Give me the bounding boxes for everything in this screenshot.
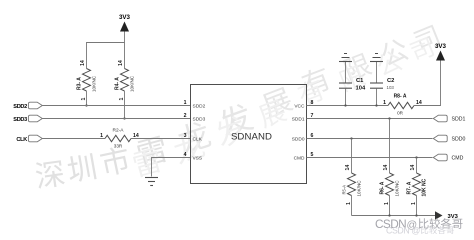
wire CMD net xyxy=(307,157,433,159)
svg-text:1: 1 xyxy=(119,98,125,101)
resistor R2-A 33R (CLK series) xyxy=(100,128,139,149)
svg-text:CMD: CMD xyxy=(294,155,305,161)
svg-text:SDD3: SDD3 xyxy=(13,117,27,123)
ground (VSS) xyxy=(145,178,158,186)
svg-text:R3- A: R3- A xyxy=(77,77,83,90)
svg-text:VCC: VCC xyxy=(294,103,305,109)
svg-text:7: 7 xyxy=(311,113,314,119)
wire 3V3 rail (bottom right) xyxy=(352,215,436,217)
wire SDD0 net xyxy=(307,138,433,140)
port SDD3 (left) xyxy=(13,115,42,123)
svg-text:1: 1 xyxy=(100,133,103,139)
svg-text:103: 103 xyxy=(387,85,395,90)
svg-text:1: 1 xyxy=(184,100,187,106)
svg-text:10K/NC: 10K/NC xyxy=(357,180,362,197)
svg-text:5: 5 xyxy=(311,152,314,158)
svg-text:R7- A: R7- A xyxy=(407,181,413,194)
wire 0R to 3V3 (top right) xyxy=(414,61,441,106)
svg-text:3: 3 xyxy=(184,133,187,139)
svg-text:8: 8 xyxy=(311,100,314,106)
svg-text:VSS: VSS xyxy=(193,155,203,161)
svg-text:33R: 33R xyxy=(114,144,123,149)
svg-text:14: 14 xyxy=(410,165,416,171)
resistor R7- A 10K NC pull-up xyxy=(407,158,428,216)
wire SDD2 net xyxy=(43,105,191,107)
watermark CSDN handle xyxy=(375,217,463,236)
svg-text:SDD0: SDD0 xyxy=(292,136,305,142)
power 3V3 (top right) xyxy=(435,43,447,61)
svg-text:R5-A: R5-A xyxy=(342,185,347,195)
svg-text:R8- A: R8- A xyxy=(394,94,407,100)
svg-text:0R: 0R xyxy=(397,111,404,116)
svg-text:R4- A: R4- A xyxy=(115,77,121,90)
svg-text:R2-A: R2-A xyxy=(113,128,125,134)
port CMD (right) xyxy=(433,154,463,161)
svg-text:C1: C1 xyxy=(356,78,364,84)
wire VSS xyxy=(152,158,191,177)
svg-text:SDD3: SDD3 xyxy=(193,116,206,122)
junction R6 / 3V3 rail xyxy=(388,214,390,216)
ground (C2 top, inverted) xyxy=(370,54,383,62)
svg-text:SDD0: SDD0 xyxy=(452,137,466,143)
svg-text:CLK: CLK xyxy=(193,136,203,142)
svg-text:1: 1 xyxy=(81,98,87,101)
watermark company name diagonal xyxy=(34,25,440,190)
junction R4 / SDD3 net xyxy=(123,117,125,119)
svg-text:C2: C2 xyxy=(387,78,394,84)
ground (C1 top, inverted) xyxy=(339,54,352,62)
power 3V3 (bottom right) xyxy=(435,211,459,220)
svg-text:CLK: CLK xyxy=(16,137,27,143)
resistor R4-A 10K/NC (SDD3 pull-up) xyxy=(115,60,135,118)
port SDD0 (right) xyxy=(433,135,465,142)
svg-text:1: 1 xyxy=(384,202,390,205)
resistor R6- A 10K/NC pull-up xyxy=(380,119,400,216)
svg-text:SDD1: SDD1 xyxy=(292,116,305,122)
wire VCC net (pin 8 to R8) xyxy=(307,105,389,107)
svg-text:1: 1 xyxy=(346,202,352,205)
svg-text:10K/NC: 10K/NC xyxy=(92,75,97,92)
junction R3 / SDD2 net xyxy=(85,104,87,106)
svg-text:SDD2: SDD2 xyxy=(193,103,206,109)
svg-text:10K NC: 10K NC xyxy=(422,178,428,196)
svg-text:SDD1: SDD1 xyxy=(452,117,466,123)
svg-text:6: 6 xyxy=(311,133,314,139)
svg-text:104: 104 xyxy=(356,86,366,92)
svg-text:14: 14 xyxy=(118,60,124,66)
junction CMD / R7 xyxy=(415,156,417,158)
capacitor C2 103 xyxy=(370,62,394,106)
junction R7 / 3V3 rail xyxy=(415,214,417,216)
power 3V3 (top left) xyxy=(119,14,131,43)
svg-text:3V3: 3V3 xyxy=(435,43,447,50)
svg-text:14: 14 xyxy=(383,165,389,171)
junction C1 / VCC xyxy=(344,104,346,106)
svg-text:10K/NC: 10K/NC xyxy=(130,75,135,92)
resistor R5-A 10K/NC pull-up xyxy=(342,139,362,216)
wire SDD3 net xyxy=(43,118,191,120)
wire 3V3 to pull-up resistors R3/R4 xyxy=(87,43,125,69)
svg-text:1: 1 xyxy=(383,100,386,106)
svg-text:14: 14 xyxy=(80,60,86,66)
svg-text:SDD2: SDD2 xyxy=(13,104,27,110)
port SDD2 (left) xyxy=(13,102,42,110)
wire CLK to R2 xyxy=(43,138,106,140)
svg-text:1: 1 xyxy=(411,202,417,205)
wire SDD1 net xyxy=(307,118,433,120)
junction SDD1 / R6 xyxy=(388,117,390,119)
svg-text:CSDN @: CSDN @ xyxy=(386,226,420,236)
svg-text:R6- A: R6- A xyxy=(380,181,386,194)
port SDD1 (right) xyxy=(433,115,465,122)
capacitor C1 104 xyxy=(339,62,366,106)
junction SDD0 / R5 xyxy=(350,137,352,139)
svg-text:3V3: 3V3 xyxy=(119,14,131,21)
port CLK (left) xyxy=(16,135,42,143)
svg-text:14: 14 xyxy=(345,165,351,171)
resistor R3-A 10K/NC (SDD2 pull-up) xyxy=(77,60,97,105)
junction C2 / VCC xyxy=(375,104,377,106)
svg-text:CMD: CMD xyxy=(452,156,464,162)
svg-text:10K/NC: 10K/NC xyxy=(395,180,400,197)
resistor R8-A 0R (VCC series) xyxy=(383,94,422,116)
svg-text:4: 4 xyxy=(184,152,187,158)
op IC U1 SDNAND xyxy=(184,85,314,184)
svg-text:2: 2 xyxy=(184,113,187,119)
svg-text:SDNAND: SDNAND xyxy=(231,132,272,143)
wire R2 to IC CLK pin xyxy=(131,138,191,140)
